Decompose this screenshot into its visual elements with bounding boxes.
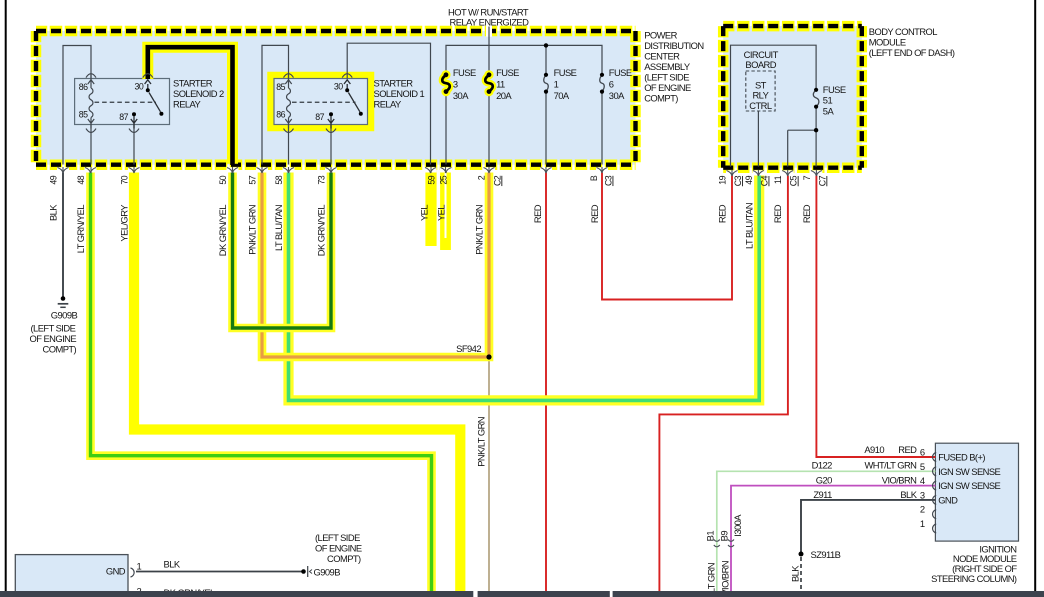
thin wire stubs through PDC pin windows <box>63 167 602 173</box>
relay K1 pin 87 contact <box>329 112 333 116</box>
svg-text:VIO/BRN: VIO/BRN <box>882 474 917 485</box>
svg-text:LT GRN: LT GRN <box>706 563 717 593</box>
wire: relay K1 pin 86 down to border (wire 58) <box>288 125 290 165</box>
node: splice G909B (lower) with tick <box>301 569 306 574</box>
svg-text:3: 3 <box>920 489 925 500</box>
svg-text:49: 49 <box>744 175 754 184</box>
svg-text:2: 2 <box>477 175 487 180</box>
wire WHT/LT GRN (D122) to ignition pin 5 <box>717 471 936 592</box>
BCM dashed border yellow highlight <box>723 26 862 168</box>
relay K2 coil (pins 86/85) <box>88 74 94 129</box>
svg-text:A910: A910 <box>864 444 884 455</box>
relay K2 pin connector arcs <box>86 74 153 133</box>
wire 59 YEL stub <box>425 170 436 246</box>
svg-text:RED: RED <box>589 204 600 223</box>
svg-text:G20: G20 <box>816 474 832 485</box>
svg-text:(LEFT END OF DASH): (LEFT END OF DASH) <box>869 47 955 58</box>
svg-text:59: 59 <box>427 175 437 184</box>
page border line right <box>1034 0 1036 597</box>
svg-text:1: 1 <box>137 561 142 572</box>
svg-text:BLK: BLK <box>900 489 917 500</box>
glow: highlighted wire glows below PDC <box>91 170 432 592</box>
PDC dashed border yellow highlight <box>36 31 636 165</box>
labels: ignition module wire ids and colors <box>812 444 918 500</box>
svg-text:11: 11 <box>496 79 505 90</box>
svg-text:2: 2 <box>920 504 925 515</box>
bottom window band segments <box>0 591 473 597</box>
wire: relay K1 pin 30 to yellow stub 59 <box>347 43 430 164</box>
svg-text:DK GRN/YEL: DK GRN/YEL <box>316 205 327 257</box>
svg-text:BLK: BLK <box>164 559 181 570</box>
svg-text:PNK/LT GRN: PNK/LT GRN <box>476 417 487 467</box>
svg-text:FUSE: FUSE <box>453 67 476 78</box>
svg-text:73: 73 <box>317 175 327 184</box>
wire VIO/BRN (G20) to ignition pin 4 <box>731 486 935 592</box>
wire 58 LT BLU/TAN glow and core to BCM pin 49/C4 <box>289 170 760 400</box>
relay K1 pin 30 switch arm <box>344 80 360 112</box>
wire: fuse bus bar inside PDC <box>446 45 602 74</box>
fuse F3 30A (energized, highlighted) <box>441 70 450 96</box>
svg-text:30: 30 <box>334 82 343 92</box>
wire: relay K2 pin 87 down to border (wire 70) <box>133 125 135 165</box>
svg-text:RED: RED <box>772 204 783 223</box>
labels: ignition module pin numbers <box>920 447 925 530</box>
svg-text:7: 7 <box>802 175 812 180</box>
BCM internal: ST RLY CTRL output to pin 49/C4 <box>757 111 759 167</box>
svg-text:SOLENOID 2: SOLENOID 2 <box>173 88 224 99</box>
node: splice SF942 <box>486 354 491 359</box>
svg-text:CIRCUIT: CIRCUIT <box>744 49 779 60</box>
wire: relay K1 pin 87 down to border (wire 73) <box>330 125 332 165</box>
svg-text:MODULE: MODULE <box>869 36 906 47</box>
wire: hot feed from title into PDC, white gap in border <box>486 25 492 36</box>
svg-text:25: 25 <box>439 175 449 184</box>
wire RED BCM pin 7/C7 to ignition node module pin 6 (A910) <box>816 176 935 458</box>
wire: fuse 11 lower lead <box>488 92 490 165</box>
svg-text:70: 70 <box>120 175 130 184</box>
svg-text:SZ911B: SZ911B <box>811 549 841 560</box>
fuse F6 30A <box>600 73 605 94</box>
wire RED fuse 6 output to BCM pin 19/C3 <box>602 172 732 299</box>
wire 25 YEL stub <box>440 170 451 250</box>
svg-text:30A: 30A <box>453 90 469 101</box>
svg-text:RED: RED <box>801 204 812 223</box>
svg-text:C2: C2 <box>492 175 502 186</box>
svg-text:ASSEMBLY: ASSEMBLY <box>644 61 691 72</box>
svg-text:58: 58 <box>274 175 284 184</box>
BCM internal: fuse 51 bottom lead, junction, pin 7 and pin 11 branches <box>788 107 816 167</box>
svg-text:BLK: BLK <box>48 204 59 221</box>
relay K2 body rect (starter solenoid 2 relay) <box>75 79 170 125</box>
svg-text:51: 51 <box>823 95 833 106</box>
svg-text:GND: GND <box>938 494 958 505</box>
svg-text:B1: B1 <box>705 531 716 542</box>
svg-text:G909B: G909B <box>314 566 341 577</box>
relay K2 pin 87 contact <box>132 112 136 116</box>
svg-text:FUSED B(+): FUSED B(+) <box>938 452 985 463</box>
svg-text:YEL/GRY: YEL/GRY <box>119 204 130 242</box>
svg-text:86: 86 <box>276 110 285 120</box>
BCM bottom border pin windows and chevrons <box>726 170 822 176</box>
svg-text:6: 6 <box>609 79 614 90</box>
relay K1 internal dashed link <box>292 101 356 103</box>
labels: PDC pin numbers (rotated) <box>49 175 614 186</box>
svg-text:11: 11 <box>773 175 783 184</box>
svg-text:Z911: Z911 <box>813 489 832 500</box>
svg-text:SF942: SF942 <box>456 343 481 354</box>
svg-text:(LEFT SIDE: (LEFT SIDE <box>644 71 689 82</box>
wire: relay K1 coil pin 85 U-loop to wire 57 <box>262 45 289 164</box>
wire 48 LT GRN/YEL core <box>91 172 432 592</box>
ST RLY CTRL dashed box <box>746 71 775 111</box>
svg-text:OF ENGINE: OF ENGINE <box>644 82 691 93</box>
svg-text:RED: RED <box>717 204 728 223</box>
svg-text:DK GRN/YEL: DK GRN/YEL <box>217 205 228 257</box>
svg-text:1: 1 <box>920 518 925 529</box>
BCM dashed border black dashes <box>723 26 862 168</box>
svg-text:OF ENGINE: OF ENGINE <box>315 543 362 554</box>
svg-text:5A: 5A <box>823 105 835 116</box>
svg-text:C7: C7 <box>817 175 827 186</box>
svg-text:COMPT): COMPT) <box>43 343 77 354</box>
wire BLK (Z911) ignition pin 3 to splice SZ911B <box>801 500 935 554</box>
PDC bottom border pin windows and chevrons <box>57 167 608 173</box>
relay K1 body rect (starter solenoid 1 relay) <box>274 79 368 125</box>
svg-text:OF ENGINE: OF ENGINE <box>30 333 77 344</box>
relay K2 pin 30 switch arm <box>145 80 161 112</box>
svg-text:87: 87 <box>119 112 128 122</box>
GND box pin socket arcs <box>131 568 135 597</box>
svg-text:C4: C4 <box>760 175 770 186</box>
svg-text:70A: 70A <box>554 90 570 101</box>
label: ignition node module name <box>931 543 1017 584</box>
body control module box fill <box>723 26 862 168</box>
labels: wire colors (rotated) <box>48 203 812 596</box>
svg-text:49: 49 <box>49 175 59 184</box>
svg-text:48: 48 <box>76 175 86 184</box>
ground symbol G909B <box>58 296 69 307</box>
svg-text:30: 30 <box>135 82 144 92</box>
wire 70 YEL/GRY solid yellow <box>134 170 460 592</box>
svg-text:50: 50 <box>218 175 228 184</box>
svg-text:FUSE: FUSE <box>496 67 519 78</box>
thin wire stubs through BCM pin windows <box>732 170 816 176</box>
svg-text:RELAY ENERGIZED: RELAY ENERGIZED <box>450 16 530 27</box>
relay K2 internal dashed link <box>95 101 157 103</box>
svg-text:RELAY: RELAY <box>374 98 403 109</box>
ignition node module box <box>935 443 1018 541</box>
power distribution center assembly box fill <box>36 31 636 165</box>
svg-text:WHT/LT GRN: WHT/LT GRN <box>865 460 917 471</box>
relay K1 pin connector arcs <box>284 74 353 133</box>
svg-text:SOLENOID 1: SOLENOID 1 <box>374 88 425 99</box>
fuse F11 20A (energized, highlighted) <box>484 70 493 96</box>
svg-text:PNK/LT GRN: PNK/LT GRN <box>247 205 258 255</box>
svg-text:STARTER: STARTER <box>173 78 213 89</box>
svg-text:BOARD: BOARD <box>745 59 776 70</box>
svg-text:POWER: POWER <box>644 29 677 40</box>
svg-text:LT BLU/TAN: LT BLU/TAN <box>273 205 284 251</box>
svg-text:20A: 20A <box>496 90 512 101</box>
svg-text:VIO/BRN: VIO/BRN <box>720 561 731 596</box>
svg-text:FUSE: FUSE <box>823 84 846 95</box>
fuse F1 70A <box>544 73 549 94</box>
svg-text:I300A: I300A <box>732 514 743 537</box>
svg-text:B: B <box>589 175 599 181</box>
svg-text:85: 85 <box>276 82 285 92</box>
svg-text:C3: C3 <box>733 175 743 186</box>
svg-text:G909B: G909B <box>51 309 78 320</box>
svg-text:86: 86 <box>79 82 88 92</box>
svg-text:57: 57 <box>248 175 258 184</box>
svg-text:IGN SW SENSE: IGN SW SENSE <box>938 480 1000 491</box>
svg-text:YEL: YEL <box>419 205 430 221</box>
svg-text:YEL: YEL <box>436 205 447 221</box>
svg-text:STARTER: STARTER <box>374 78 414 89</box>
in-line connector marks B1/B9 (I300A) on LT GRN and VIO/BRN wires <box>714 540 734 547</box>
wire: fuse 6 lower lead <box>601 92 603 165</box>
svg-text:GND: GND <box>106 566 126 577</box>
svg-text:STEERING COLUMN): STEERING COLUMN) <box>931 573 1017 584</box>
node: BCM junction below fuse 51 <box>814 128 818 132</box>
wire 57 + wire 2 PNK/LT GRN glow and cores meeting at splice SF942 <box>262 170 489 357</box>
svg-text:DISTRIBUTION: DISTRIBUTION <box>644 40 703 51</box>
GND box pin 1 wire BLK to splice G909B <box>136 571 304 573</box>
wire RED fuse 1 output down to bottom <box>545 172 547 592</box>
BCM internal: circuit board outline wire pin19 up across to fuse 51 <box>731 45 817 166</box>
svg-text:4: 4 <box>920 475 925 486</box>
svg-text:BODY CONTROL: BODY CONTROL <box>869 26 937 37</box>
page border line left <box>5 0 7 597</box>
svg-text:1: 1 <box>554 79 559 90</box>
svg-text:B9: B9 <box>719 531 730 542</box>
wire: fuse 1 lower lead <box>545 92 547 165</box>
svg-text:87: 87 <box>315 112 324 122</box>
wire PNK/LT GRN unhighlighted below splice SF942 <box>488 357 490 592</box>
svg-text:COMPT): COMPT) <box>327 553 361 564</box>
svg-text:85: 85 <box>79 110 88 120</box>
GND box pin 2 wire DK GRN/YEL (mostly hidden) <box>136 596 420 597</box>
labels: BCM pin numbers (rotated) <box>718 175 828 186</box>
svg-text:FUSE: FUSE <box>554 67 577 78</box>
relay K1 coil (pins 85/86) <box>285 74 291 129</box>
node: bus junction at fuse 1 <box>544 43 548 47</box>
svg-text:C5: C5 <box>789 175 799 186</box>
wire: relay K2 pin 85 down to border (wire 48) <box>90 125 92 165</box>
svg-text:RELAY: RELAY <box>173 98 202 109</box>
svg-text:FUSE: FUSE <box>609 67 632 78</box>
wire: fuse 3 lower lead <box>445 92 447 165</box>
svg-text:IGN SW SENSE: IGN SW SENSE <box>938 466 1000 477</box>
ground distribution module box (bottom left, clipped) <box>15 555 128 597</box>
svg-text:D122: D122 <box>812 460 833 471</box>
svg-text:RED: RED <box>532 204 543 223</box>
wire: relay K2 coil pin 86 U-loop to wire 49 <box>63 46 91 165</box>
ignition node module pin socket arcs <box>933 453 937 534</box>
svg-text:LT BLU/TAN: LT BLU/TAN <box>743 203 754 249</box>
svg-text:30A: 30A <box>609 90 625 101</box>
svg-text:COMPT): COMPT) <box>644 92 678 103</box>
svg-text:C3: C3 <box>604 175 614 186</box>
svg-text:LT GRN/YEL: LT GRN/YEL <box>75 205 86 254</box>
wire BLK dashed below splice SZ911B <box>800 557 802 592</box>
svg-text:5: 5 <box>920 461 925 472</box>
PDC dashed border black dashes <box>36 31 636 165</box>
svg-text:RED: RED <box>898 444 917 455</box>
svg-text:6: 6 <box>920 447 925 458</box>
svg-text:19: 19 <box>718 175 728 184</box>
svg-text:3: 3 <box>453 79 458 90</box>
svg-text:BLK: BLK <box>790 565 801 582</box>
wire 50 highlighted path: relay K2 pin 30 up over and down (thick black on yellow) <box>148 47 233 164</box>
wire RED BCM pin 11/C5 down-left to bottom <box>659 176 788 593</box>
node: splice SZ911B <box>799 552 804 557</box>
svg-text:CTRL: CTRL <box>749 100 772 111</box>
relay K1 yellow highlight outline (starter solenoid 1 relay energized) <box>271 76 371 128</box>
svg-text:(LEFT SIDE: (LEFT SIDE <box>315 532 360 543</box>
svg-text:(LEFT SIDE: (LEFT SIDE <box>31 323 76 334</box>
wire 50/73 DK GRN/YEL glow and core: relay K2 pin30 to relay K1 pin 87 <box>233 170 332 328</box>
wire 49 BLK to ground G909B <box>62 170 64 297</box>
fuse F51 5A inside BCM <box>813 88 819 109</box>
svg-text:CENTER: CENTER <box>644 50 680 61</box>
svg-text:PNK/LT GRN: PNK/LT GRN <box>474 205 485 255</box>
